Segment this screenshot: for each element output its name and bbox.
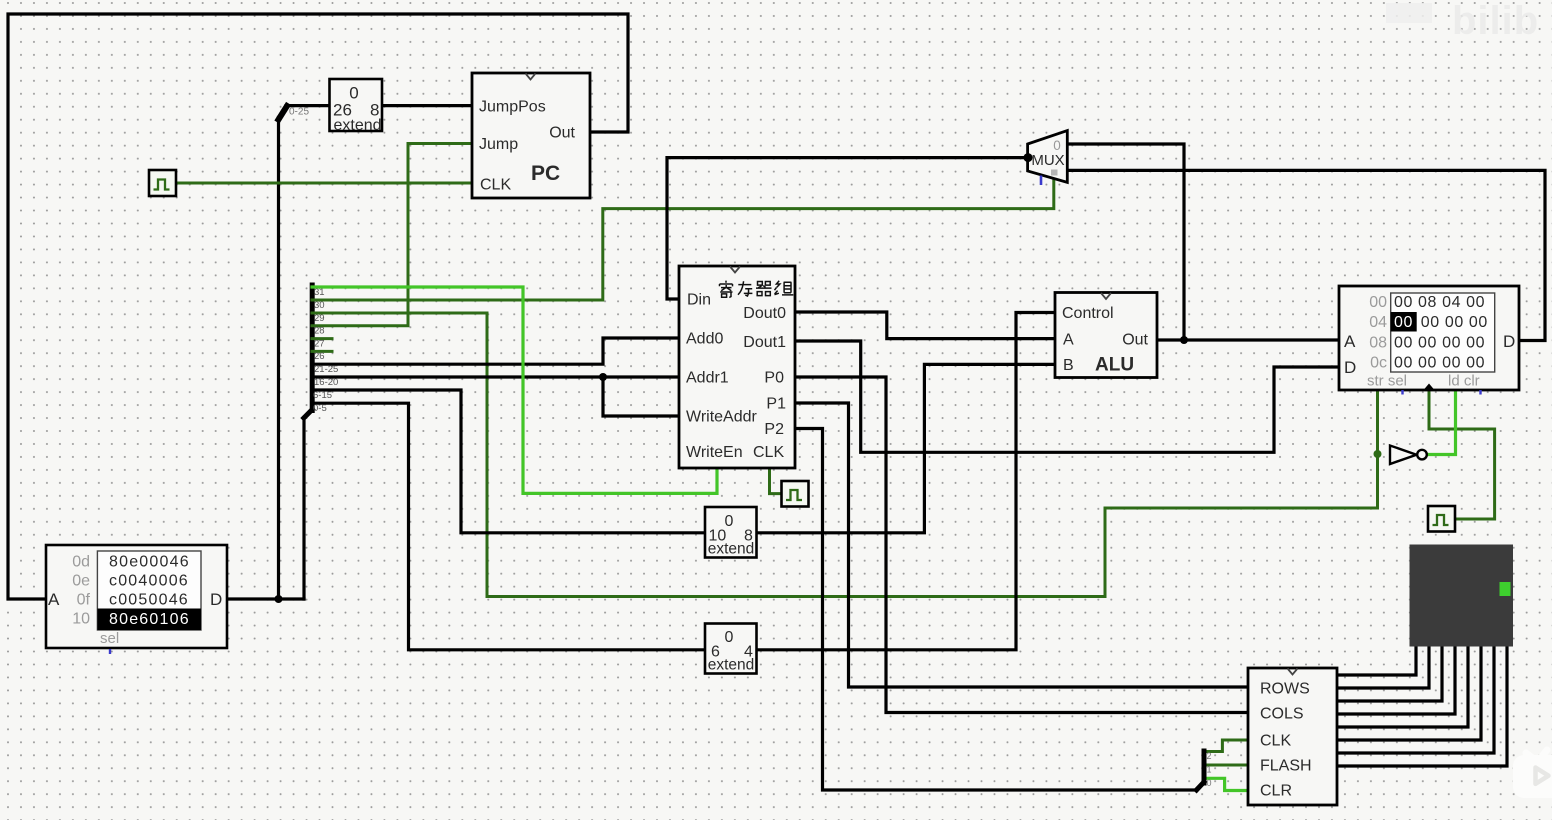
wire instruction bus up to splitter 0-25 xyxy=(277,118,280,600)
svg-text:0: 0 xyxy=(725,629,734,646)
svg-text:0d: 0d xyxy=(72,554,90,571)
wire extend6 output to ALU Control xyxy=(756,313,1055,650)
wire bit31 to RegFile WriteEn xyxy=(312,287,717,493)
wire instruction bus to main splitter xyxy=(302,418,305,600)
wire P2 to splitter SP3 xyxy=(795,429,1197,791)
svg-text:str sel: str sel xyxy=(1367,373,1407,390)
wire extend10 output to ALU B xyxy=(756,364,1055,532)
KBD scanner subcircuit (ROWS/COLS) xyxy=(1248,668,1337,805)
svg-text:WriteEn: WriteEn xyxy=(686,444,743,461)
svg-text:0c: 0c xyxy=(1370,355,1387,372)
svg-text:CLR: CLR xyxy=(1260,783,1292,800)
wire LED matrix pin2 to KBD out2 xyxy=(1337,646,1429,688)
svg-text:0-25: 0-25 xyxy=(289,107,309,118)
splitter SP3 spine xyxy=(1202,751,1207,783)
wire clock3 to RAM clk xyxy=(1429,390,1495,519)
wire splitter SP3 bit2 to KBD CLK xyxy=(1204,740,1248,752)
svg-text:Out: Out xyxy=(1122,332,1148,349)
svg-text:PC: PC xyxy=(531,162,560,185)
svg-text:bilib: bilib xyxy=(1452,0,1539,43)
wire ALU Out branch to MUX in0 xyxy=(1067,144,1184,340)
svg-text:27: 27 xyxy=(314,339,325,350)
svg-text:00 00 00 00: 00 00 00 00 xyxy=(1394,355,1485,372)
svg-text:P1: P1 xyxy=(766,396,786,413)
splitter SP3 bit labels xyxy=(1207,751,1212,788)
wire splitter to extend26 input xyxy=(286,104,330,107)
junction ALU Out / MUX in0 xyxy=(1180,336,1188,344)
wire bits6-15 to extend10 input xyxy=(312,390,705,533)
wire bit26 stub xyxy=(312,350,332,353)
svg-text:21-25: 21-25 xyxy=(314,364,338,375)
wire extend26 output to PC JumpPos xyxy=(382,104,472,107)
svg-text:MUX: MUX xyxy=(1031,152,1064,169)
svg-text:00: 00 xyxy=(1369,294,1387,311)
splitter SP2 main diagonal xyxy=(304,410,312,419)
svg-text:00 08 04 00: 00 08 04 00 xyxy=(1394,294,1485,311)
svg-text:00: 00 xyxy=(1394,314,1413,331)
watermark bilibili xyxy=(1386,0,1539,43)
svg-text:0: 0 xyxy=(1207,778,1212,788)
svg-text:1: 1 xyxy=(1207,765,1212,775)
svg-text:Din: Din xyxy=(687,292,711,309)
wire bit28 to PC Jump xyxy=(312,144,472,326)
LED matrix display xyxy=(1410,545,1514,647)
svg-text:A: A xyxy=(1063,332,1074,349)
wire LED matrix pin5 to KBD out5 xyxy=(1337,646,1468,727)
clock CLK3 (RAM clock) xyxy=(1428,506,1455,532)
svg-text:COLS: COLS xyxy=(1260,706,1304,723)
svg-text:A: A xyxy=(48,590,60,609)
svg-text:0e: 0e xyxy=(72,573,90,590)
svg-text:04: 04 xyxy=(1369,314,1387,331)
svg-text:ALU: ALU xyxy=(1095,355,1134,376)
svg-text:c0050046: c0050046 xyxy=(109,592,189,609)
svg-text:extend: extend xyxy=(333,117,381,134)
svg-text:Addr1: Addr1 xyxy=(686,370,729,387)
svg-text:JumpPos: JumpPos xyxy=(479,99,546,116)
svg-text:CLK: CLK xyxy=(753,444,784,461)
wire MUX output to RegFile Din xyxy=(667,158,1028,299)
wire LED matrix pin8 to KBD out8 xyxy=(1337,646,1507,766)
wire bits21-25 to RegFile Add0 xyxy=(312,338,679,364)
MUX (write-back select) xyxy=(1028,131,1068,185)
svg-text:10: 10 xyxy=(72,611,90,628)
wire LED matrix pin7 to KBD out7 xyxy=(1337,646,1494,753)
wire ALU Out to RAM A xyxy=(1157,338,1339,341)
extend6 (extender 6 to 4) xyxy=(705,624,757,674)
svg-text:ROWS: ROWS xyxy=(1260,681,1310,698)
splitter SP2 spine xyxy=(310,285,315,411)
svg-text:Out: Out xyxy=(549,125,575,142)
svg-text:c0040006: c0040006 xyxy=(109,573,189,590)
wire Dout0 to ALU A xyxy=(795,312,1055,339)
wire clock1 to PC CLK xyxy=(176,182,472,185)
PC (program counter subcircuit) xyxy=(472,73,590,198)
wire ROM D output bus xyxy=(227,597,304,600)
NOT gate (inverter) xyxy=(1390,446,1427,465)
wire bits16-20 to RegFile Addr1 xyxy=(312,375,679,378)
svg-text:A: A xyxy=(1344,332,1356,351)
svg-text:Add0: Add0 xyxy=(686,331,723,348)
svg-text:29: 29 xyxy=(314,313,325,324)
svg-text:80e00046: 80e00046 xyxy=(109,554,190,571)
wire top border loop: PC Out to ROM A xyxy=(8,14,628,599)
junction str / NOT input xyxy=(1374,450,1382,458)
node MUX output pin xyxy=(1024,153,1033,162)
title 寄存器组 (drawn strokes) xyxy=(720,281,794,298)
wire LED matrix pin4 to KBD out4 xyxy=(1337,646,1455,714)
svg-text:sel: sel xyxy=(100,630,119,647)
splitter SP2 bit labels xyxy=(313,287,338,414)
svg-text:30: 30 xyxy=(314,300,325,311)
svg-text:00 00 00: 00 00 00 xyxy=(1421,314,1488,331)
splitter SP1 0-25 (diagonal) xyxy=(279,106,288,120)
svg-text:ld clr: ld clr xyxy=(1448,373,1480,390)
svg-text:P0: P0 xyxy=(764,370,784,387)
svg-text:D: D xyxy=(1503,332,1515,351)
svg-text:2: 2 xyxy=(1207,751,1212,761)
junction Addr1/WriteAddr xyxy=(599,373,607,381)
svg-text:26: 26 xyxy=(314,351,325,362)
wire bits0-5 to extend6 input xyxy=(312,403,705,650)
svg-text:0-5: 0-5 xyxy=(313,403,327,414)
wire Dout1 to RAM D-in xyxy=(795,341,1339,452)
wire RAM D right to MUX in1 xyxy=(1067,170,1545,340)
svg-text:00 00 00 00: 00 00 00 00 xyxy=(1394,335,1485,352)
splitter SP3 diagonal xyxy=(1197,782,1205,790)
wire bit27 stub xyxy=(312,337,332,340)
svg-text:WriteAddr: WriteAddr xyxy=(686,409,758,426)
svg-text:extend: extend xyxy=(708,657,755,674)
svg-text:6-15: 6-15 xyxy=(313,390,332,401)
svg-text:CLK: CLK xyxy=(1260,733,1291,750)
wire splitter SP3 bit1 to KBD FLASH xyxy=(1204,764,1248,767)
svg-text:Dout0: Dout0 xyxy=(743,305,786,322)
svg-text:D: D xyxy=(210,590,222,609)
svg-text:31: 31 xyxy=(314,287,325,298)
extend26 (sign extender 26 to 8) xyxy=(330,79,383,134)
wire splitter SP3 bit0 to KBD CLR xyxy=(1204,778,1248,790)
extend10 (extender 10 to 8) xyxy=(705,507,757,558)
wire bit30 to MUX select xyxy=(312,179,1054,300)
svg-text:Dout1: Dout1 xyxy=(743,334,786,351)
wire P1 to KBD ROWS xyxy=(795,403,1248,687)
svg-text:Control: Control xyxy=(1062,305,1114,322)
svg-text:CLK: CLK xyxy=(480,177,511,194)
wire LED matrix pin1 to KBD out1 xyxy=(1337,646,1416,675)
svg-text:08: 08 xyxy=(1369,335,1387,352)
wire bit29 to RAM str xyxy=(312,313,1378,597)
svg-text:FLASH: FLASH xyxy=(1260,758,1312,775)
ALU (Control/A/B subcircuit) xyxy=(1055,293,1157,378)
ROM (program memory) xyxy=(46,545,227,654)
svg-text:0: 0 xyxy=(1053,138,1061,153)
svg-text:Jump: Jump xyxy=(479,136,518,153)
RAM (data memory) xyxy=(1339,286,1519,395)
wire RegFile CLK to clock2 xyxy=(770,468,782,494)
clock CLK2 (register file clock) xyxy=(782,481,809,507)
svg-text:80e60106: 80e60106 xyxy=(109,611,190,628)
wire LED matrix pin6 to KBD out6 xyxy=(1337,646,1481,740)
wire LED matrix pin3 to KBD out3 xyxy=(1337,646,1442,701)
svg-text:D: D xyxy=(1344,358,1356,377)
wire P0 to KBD COLS xyxy=(795,377,1248,713)
svg-text:extend: extend xyxy=(708,541,755,558)
junction ROM D branch xyxy=(275,595,283,603)
svg-text:16-20: 16-20 xyxy=(314,377,338,388)
register file 寄存器组 subcircuit xyxy=(679,266,795,468)
svg-text:28: 28 xyxy=(314,326,325,337)
wire branch to RegFile WriteAddr xyxy=(603,377,679,416)
svg-text:P2: P2 xyxy=(764,421,784,438)
wire NOT output to RAM ld xyxy=(1428,390,1456,455)
player play button overlay xyxy=(1513,750,1552,798)
svg-text:B: B xyxy=(1063,357,1074,374)
clock CLK1 xyxy=(149,170,176,196)
svg-text:0f: 0f xyxy=(77,592,91,609)
